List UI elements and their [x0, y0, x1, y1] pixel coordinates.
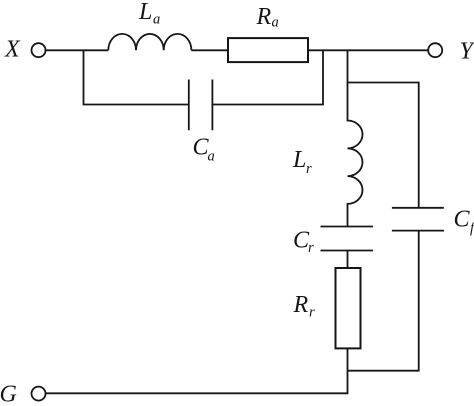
- svg-text:X: X: [4, 37, 21, 63]
- svg-text:a: a: [208, 149, 215, 165]
- svg-text:L: L: [292, 147, 306, 173]
- svg-text:a: a: [272, 15, 279, 31]
- svg-text:G: G: [0, 382, 17, 406]
- svg-text:a: a: [153, 12, 160, 28]
- svg-text:r: r: [308, 240, 314, 256]
- svg-text:r: r: [306, 161, 312, 177]
- svg-text:L: L: [138, 0, 152, 25]
- svg-text:R: R: [256, 4, 272, 30]
- svg-text:C: C: [454, 207, 471, 233]
- svg-text:r: r: [309, 305, 315, 321]
- svg-text:Y: Y: [460, 39, 474, 65]
- svg-text:R: R: [293, 292, 309, 318]
- svg-text:f: f: [470, 221, 474, 237]
